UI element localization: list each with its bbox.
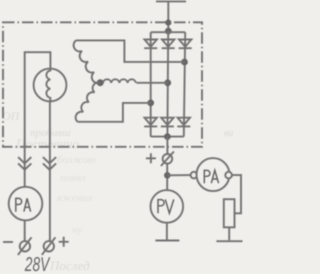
resistor R	[224, 199, 235, 227]
ammeter PA2 terminal right	[225, 172, 232, 179]
stator winding phase C coil	[76, 82, 101, 121]
node: phase A junction	[181, 59, 188, 66]
ammeter PA1 circle	[9, 187, 43, 221]
rotor (exciter) circle	[34, 69, 67, 102]
wire: left rectifier column	[150, 32, 152, 136]
field winding frame (rotor leads)	[25, 52, 51, 241]
label PV	[158, 199, 174, 213]
wire: phase C lead (stator bottom to left column)	[78, 103, 151, 122]
node: dot at bottom bus	[164, 133, 171, 140]
label PA2	[204, 170, 218, 183]
label plus sign (output)	[146, 153, 156, 163]
svg-text:ОП: ОП	[2, 109, 21, 123]
wire: middle rectifier column	[166, 32, 169, 136]
enclosure box (generator unit dash-dot border)	[3, 22, 202, 147]
svg-text:вжених: вжених	[57, 192, 93, 204]
diode VD1 (top left)	[144, 40, 157, 49]
wire: PA2 to resistor	[232, 175, 241, 213]
stator winding phase A coil	[74, 40, 101, 83]
node: phase B junction	[164, 79, 171, 86]
diode VD5 (bottom middle)	[161, 118, 174, 127]
wire: rectifier bottom bus	[151, 136, 184, 138]
svg-text:28V: 28V	[24, 254, 50, 274]
label plus sign	[59, 237, 69, 247]
node: dot on box edge	[165, 20, 171, 26]
wire: output terminal to PV	[166, 164, 168, 191]
svg-text:болжою: болжою	[57, 154, 96, 166]
node: dot at top bus	[165, 28, 172, 35]
wire: rectifier top bus	[151, 31, 186, 33]
node: output junction	[164, 172, 171, 179]
svg-text:Послед: Послед	[49, 258, 90, 273]
ammeter PA2 circle	[197, 158, 230, 191]
output terminal (circle with slash)	[161, 152, 174, 167]
diode VD3 (top right)	[179, 40, 192, 49]
rotor winding coil	[46, 69, 50, 101]
wire: phase A lead (stator top to right column)	[76, 40, 185, 62]
svg-text:ну: ну	[72, 224, 82, 236]
wire: junction to PA2	[167, 174, 190, 176]
voltmeter PV circle	[151, 190, 184, 223]
node: phase C junction	[147, 100, 154, 107]
diode VD4 (bottom left)	[144, 118, 157, 127]
wire: top ground to rectifier top bus	[167, 2, 169, 33]
terminal plus (circle with slash)	[42, 237, 56, 255]
terminal minus (circle with slash)	[18, 237, 32, 255]
diode VD6 (bottom right)	[177, 118, 190, 127]
wire: bottom bus to output terminal	[166, 137, 168, 155]
chevron arrows (left wire)	[18, 157, 31, 170]
svg-text:появл: появл	[60, 172, 86, 184]
wire: phase B lead	[137, 82, 168, 84]
ground (PV)	[155, 240, 179, 242]
wire: resistor to ground	[228, 227, 230, 240]
diode VD2 (top middle)	[162, 40, 175, 49]
label PA1	[16, 198, 31, 211]
label minus sign	[3, 241, 13, 243]
ground (resistor)	[216, 240, 242, 242]
label 28V	[24, 254, 50, 274]
ground (top)	[156, 0, 186, 2]
svg-text:ви: ви	[224, 128, 233, 139]
stator winding phase B coil	[103, 79, 136, 83]
ammeter PA2 terminal left	[191, 172, 198, 179]
wire: right rectifier column	[184, 32, 185, 136]
node: stator star point	[97, 79, 104, 86]
chevron arrows (right wire)	[43, 157, 56, 170]
wire: PV to ground	[166, 223, 168, 240]
